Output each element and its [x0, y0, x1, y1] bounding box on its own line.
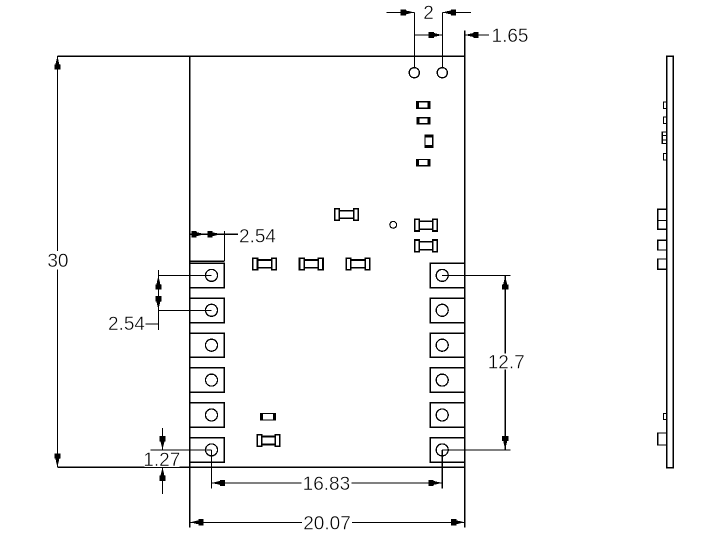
side chip C3 cap line bottom — [662, 139, 666, 141]
dim 1.65 right arrow line — [465, 34, 489, 36]
svg-text:20.07: 20.07 — [303, 513, 351, 534]
dim 1.27 lower arrow line — [162, 467, 164, 494]
chip C6 right middle — [415, 219, 438, 231]
left pad 5 — [190, 403, 224, 427]
dim text 16.83 — [302, 475, 352, 491]
right pad 4 — [430, 368, 464, 392]
body left edge (extended down for 20.07 dim) — [189, 56, 191, 527]
left pad 1 — [190, 263, 224, 287]
chip C12 bottom — [257, 435, 280, 447]
side chip C4 — [663, 154, 666, 161]
svg-text:1.27: 1.27 — [143, 450, 180, 471]
svg-text:16.83: 16.83 — [303, 474, 351, 495]
side chip C11 — [663, 414, 666, 420]
svg-text:12.7: 12.7 — [488, 352, 525, 373]
right pad 3 — [430, 333, 464, 357]
chip C7 right middle — [415, 240, 438, 252]
dim 12.7 line — [504, 275, 506, 450]
dim 2 left arrow line — [386, 11, 414, 13]
right pad 5 hole — [436, 409, 448, 421]
body right edge (extended up for 1.65, down for 20.07) — [464, 31, 466, 528]
extension line pin1 — [413, 12, 415, 67]
left pad 4 hole — [206, 374, 218, 386]
extension line row2 — [158, 309, 211, 311]
right pad 6 hole — [436, 444, 448, 456]
body bottom edge (extended left for 30/1.27 dims) — [57, 466, 464, 468]
extension line row6 — [150, 449, 211, 451]
extension line left holes — [211, 450, 213, 489]
side chip row a — [658, 240, 667, 250]
svg-text:2.54: 2.54 — [108, 314, 145, 335]
left pad 3 — [190, 333, 224, 357]
side view board body — [667, 56, 673, 468]
chip C3 vertical — [424, 134, 433, 148]
svg-text:1.65: 1.65 — [492, 26, 529, 47]
left pad 5 hole — [206, 409, 218, 421]
right pad 2 — [430, 298, 464, 322]
right pad 4 hole — [436, 374, 448, 386]
top antenna pin hole 2 — [437, 68, 447, 78]
chip C2 top column — [416, 117, 430, 124]
extension line row1 — [158, 274, 211, 276]
dim 2.54 vertical line — [157, 270, 159, 330]
leader to text — [146, 323, 159, 325]
chip C11 bottom — [260, 413, 276, 421]
svg-text:2.54: 2.54 — [239, 227, 276, 248]
side chip C3 cap line top — [662, 134, 666, 136]
left pad 3 hole — [206, 339, 218, 351]
dim text 1.27 — [145, 452, 180, 468]
extension line right row1 — [442, 274, 510, 276]
via hole — [390, 221, 397, 228]
side chip C12 — [658, 433, 667, 445]
extension tick above pad 1 — [190, 260, 224, 262]
right pad 1 — [430, 263, 464, 287]
chip C5 middle — [335, 209, 359, 221]
right pad 5 — [430, 403, 464, 427]
side chip C2 — [663, 117, 666, 124]
dim 2 right arrow line — [442, 11, 471, 13]
dim text 20.07 — [302, 515, 352, 531]
body top edge (extended left for 30 dim) — [57, 55, 464, 57]
right pad 1 hole — [436, 269, 448, 281]
right pad 6 — [430, 438, 464, 462]
left pad 2 hole — [206, 304, 218, 316]
dim 1.27 upper arrow line — [162, 428, 164, 450]
chip C8 row of three — [253, 258, 276, 270]
svg-text:2: 2 — [423, 3, 434, 24]
dim 30 line upper — [56, 56, 58, 251]
left pad 4 — [190, 368, 224, 392]
extension line right row6 — [442, 449, 510, 451]
svg-text:30: 30 — [47, 251, 68, 272]
chip C1 top column — [416, 101, 431, 109]
dim 16.83 line — [212, 482, 443, 484]
chip C10 row of three — [346, 258, 370, 270]
chip C9 row of three — [300, 258, 324, 270]
right pad 2 hole — [436, 304, 448, 316]
extension line right holes — [441, 450, 443, 489]
left pad 1 hole — [206, 269, 218, 281]
dim 20.07 line — [190, 521, 465, 523]
left pad 6 hole — [206, 444, 218, 456]
side chip C6 — [658, 209, 667, 220]
side chip C7 — [658, 221, 667, 230]
right pad 3 hole — [436, 339, 448, 351]
left pad 6 — [190, 438, 224, 462]
extension line pad right edge — [223, 231, 225, 261]
dim 1.65 left arrow line — [414, 34, 442, 36]
dim 30 line lower — [56, 270, 58, 468]
dim 2.54 line — [190, 233, 238, 235]
side chip C3 — [662, 132, 666, 144]
dim text 12.7 — [490, 354, 524, 370]
left pad 2 — [190, 298, 224, 322]
side chip row b — [658, 259, 667, 269]
top antenna pin hole 1 — [409, 68, 419, 78]
side chip C1 — [663, 102, 666, 109]
extension line pin2 — [441, 12, 443, 67]
chip C4 top column — [416, 159, 431, 167]
